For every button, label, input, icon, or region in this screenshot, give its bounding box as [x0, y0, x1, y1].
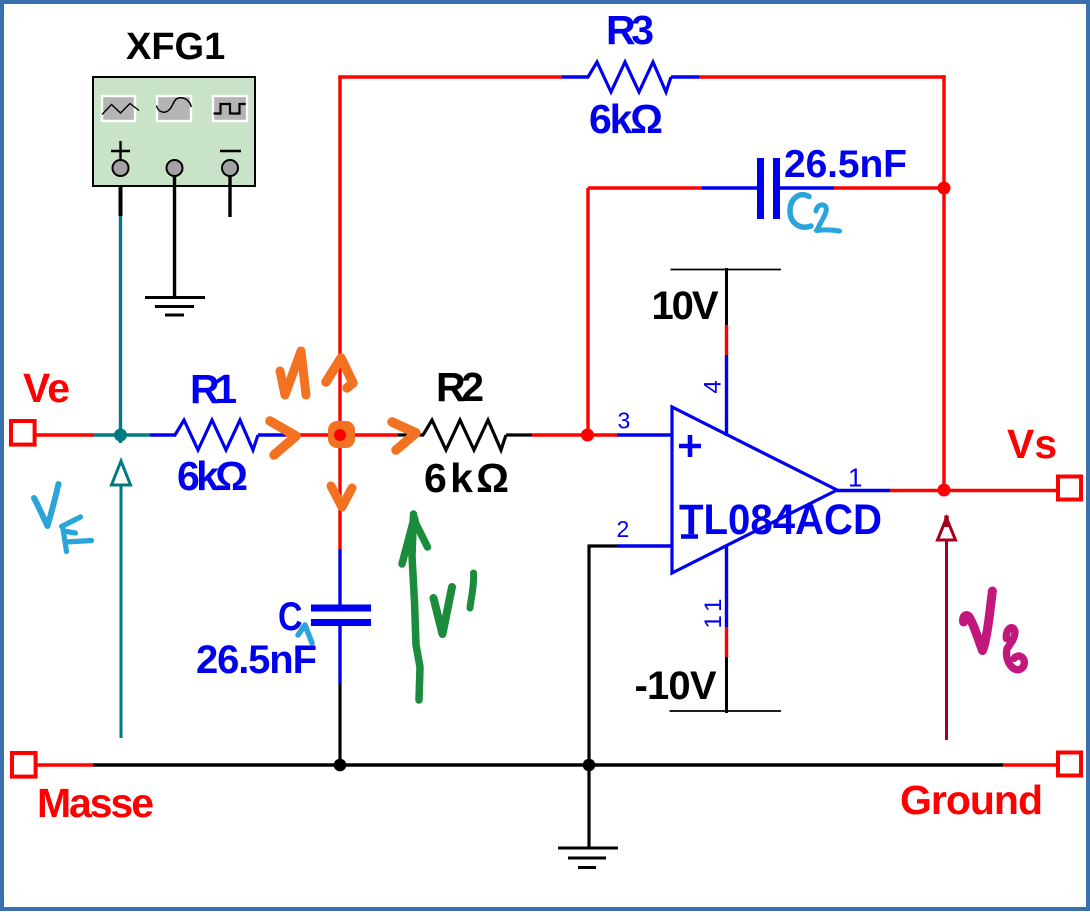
annotation: orange letter N — [280, 351, 306, 395]
annotation: orange left chevron arrow — [270, 421, 296, 455]
XFG1 sine-wave icon — [157, 96, 192, 121]
annotation: magenta handwritten V S — [964, 591, 993, 651]
wire: red segment R2 to pin3 junction — [532, 433, 617, 436]
op-amp minus input symbol — [681, 534, 698, 539]
svg-text:4: 4 — [700, 380, 727, 393]
node: teal junction dot on Ve line — [114, 429, 127, 442]
annotation: orange blob on node N — [328, 421, 355, 448]
XFG1 triangle-wave icon — [102, 96, 139, 121]
power rail bar +10V — [671, 269, 782, 271]
svg-text:26.5nF: 26.5nF — [196, 638, 317, 682]
annotation: orange right chevron arrow — [392, 422, 416, 450]
wire: red segment node N to R2 — [340, 433, 398, 436]
svg-text:R3: R3 — [606, 7, 654, 53]
wire: red vertical node N up to top — [338, 76, 341, 436]
wire: blue lead out of R3 — [671, 75, 699, 78]
wire: blue segment into C1 — [338, 549, 341, 606]
XFG1 plus mark — [111, 141, 130, 161]
svg-text:Ve: Ve — [23, 365, 70, 411]
wire: red C2 feedback to right vertical — [834, 186, 944, 189]
svg-text:Masse: Masse — [37, 780, 154, 826]
wire: pin4 blue segment into op-amp — [725, 355, 728, 436]
svg-text:R2: R2 — [436, 364, 484, 410]
svg-text:3: 3 — [618, 408, 631, 434]
wire: bottom ground rail black — [93, 763, 1003, 766]
wire: pin4 black top segment from 10V rail — [725, 268, 728, 325]
wire: red output to Vs terminal — [944, 489, 1058, 492]
node: black dot ground stem — [583, 759, 596, 772]
wire: red stub from Masse terminal — [37, 763, 93, 766]
annotation: maroon voltage arrow VS — [938, 516, 956, 741]
annotation: green current arrow — [412, 514, 420, 700]
node: red junction dot at C2 right — [938, 182, 951, 195]
wire: ground stem below rail — [587, 765, 590, 848]
resistor R1 zigzag — [175, 420, 258, 450]
wire: red segment node N down to C1 — [338, 435, 341, 549]
svg-text:Ground: Ground — [900, 777, 1043, 823]
annotation: cyan C1 subscript tick — [298, 625, 312, 643]
wire: blue pin3 stub into op-amp — [617, 433, 672, 436]
wire: blue pin2 stub into op-amp — [617, 544, 672, 547]
wire: black pin2 wire from ground rail — [587, 546, 590, 765]
svg-text:1: 1 — [848, 463, 862, 493]
XFG1 square-wave icon — [213, 96, 247, 121]
XFG1 terminal common — [167, 160, 183, 176]
svg-text:-10V: -10V — [635, 664, 717, 708]
wire: red top horizontal to R3 — [338, 75, 562, 78]
resistor R3 zigzag — [588, 62, 671, 92]
svg-text:26.5nF: 26.5nF — [784, 143, 907, 186]
wire: blue lead into C2 — [702, 186, 757, 189]
svg-text:6kΩ: 6kΩ — [177, 453, 248, 499]
annotation: teal voltage arrow VE — [112, 461, 131, 738]
wire: blue lead out of R1 — [258, 433, 285, 436]
wire: blue lead into R1 — [150, 433, 176, 436]
wire: black stub from XFG1 plus terminal — [119, 176, 123, 216]
wire: red right vertical down to output node — [942, 75, 945, 490]
op-amp plus input symbol — [679, 435, 701, 457]
svg-text:11: 11 — [700, 594, 727, 629]
ground symbol bottom — [558, 848, 618, 868]
wire: black segment C1 to ground rail — [338, 683, 341, 765]
annotation: orange small v below node — [331, 486, 352, 507]
wire: red vertical down to pin3 junction — [586, 188, 589, 435]
wire: red output segment to node — [890, 489, 944, 492]
XFG1 terminal minus — [222, 160, 238, 176]
terminal square Masse — [12, 753, 36, 777]
wire: blue lead out of C2 — [780, 186, 834, 189]
wire: blue lead into R3 — [562, 75, 589, 78]
wire: red stub to Ground terminal — [1003, 763, 1058, 766]
wire: pin4 red segment — [725, 325, 728, 355]
terminal square Vs — [1058, 477, 1081, 500]
wire: pin11 blue segment from op-amp — [725, 545, 728, 627]
XFG1 terminal plus — [113, 160, 129, 176]
annotation: cyan C2 subscript handwritten — [790, 195, 811, 227]
wire: black lead out of R2 — [506, 433, 532, 436]
capacitor C1 plates — [311, 608, 371, 623]
terminal square Ground — [1058, 753, 1081, 776]
svg-text:6kΩ: 6kΩ — [589, 96, 663, 142]
svg-text:2: 2 — [617, 516, 630, 542]
node: red dot on node N over blob — [334, 429, 346, 441]
svg-text:TL084ACD: TL084ACD — [679, 496, 882, 544]
annotation: green letter V with prime — [434, 587, 453, 634]
node: black dot C1 bottom — [334, 759, 347, 772]
annotation: cyan handwritten V E — [34, 484, 59, 526]
ground symbol under XFG1 — [145, 298, 205, 316]
wire: teal segment on Ve line — [93, 433, 150, 436]
wire: black lead into R2 — [398, 433, 424, 436]
wire: red C2 feedback horizontal left part — [588, 186, 702, 189]
terminal square Ve — [11, 421, 35, 445]
wire: red segment R1 to node N — [285, 433, 340, 436]
capacitor C2 plates — [761, 158, 777, 219]
wire: blue segment out of C1 — [338, 625, 341, 683]
wire: pin11 red segment — [725, 627, 728, 657]
node: red dot at node N — [334, 429, 346, 441]
XFG1 minus mark — [220, 150, 241, 152]
wire: pin11 black bottom segment to -10V rail — [725, 657, 728, 713]
function generator XFG1 body — [93, 77, 255, 186]
wire: Ve red stub — [36, 433, 93, 436]
wire: XFG1 common terminal to ground — [173, 176, 176, 297]
power rail bar -10V — [670, 710, 782, 712]
resistor R2 zigzag — [423, 420, 506, 450]
node: red dot at output — [938, 484, 951, 497]
wire: teal vertical from XFG1 plus terminal — [119, 176, 122, 443]
svg-text:10V: 10V — [652, 284, 719, 328]
wire: blue output stub pin1 — [837, 489, 890, 492]
svg-text:XFG1: XFG1 — [126, 26, 225, 68]
svg-text:R1: R1 — [190, 366, 237, 412]
op-amp U1 triangle TL084ACD — [672, 407, 837, 573]
node: red junction dot at pin3 — [581, 429, 594, 442]
annotation: orange up arrowhead on node N vertical — [326, 358, 353, 388]
wire: red top horizontal R3 to right corner — [699, 75, 946, 78]
wire: XFG1 minus terminal stub — [228, 176, 231, 217]
svg-text:Vs: Vs — [1007, 421, 1057, 467]
svg-text:6kΩ: 6kΩ — [424, 455, 509, 501]
